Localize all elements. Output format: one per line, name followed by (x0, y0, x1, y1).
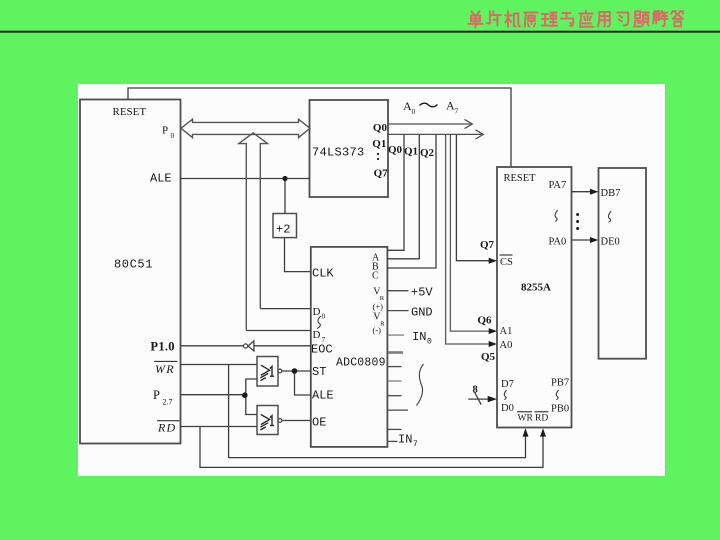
svg-text:Q1: Q1 (372, 138, 386, 150)
svg-text:RESET: RESET (504, 173, 537, 184)
svg-text:ALE: ALE (312, 389, 334, 403)
svg-text:ADC0809: ADC0809 (336, 357, 386, 370)
svg-text:Q5: Q5 (481, 351, 496, 363)
svg-text:IN: IN (412, 330, 426, 344)
svg-text:A1: A1 (500, 326, 513, 337)
svg-text:P: P (153, 388, 160, 402)
svg-text:OE: OE (312, 416, 326, 430)
svg-text:D7: D7 (501, 379, 514, 390)
svg-text:PB0: PB0 (551, 404, 569, 415)
svg-text:+2: +2 (276, 223, 290, 237)
svg-text:0: 0 (427, 338, 432, 347)
svg-text:ST: ST (312, 365, 326, 379)
svg-text:Q2: Q2 (420, 147, 435, 159)
svg-text:7: 7 (455, 107, 459, 116)
svg-text:RD: RD (157, 420, 176, 434)
svg-text:DB7: DB7 (601, 188, 621, 199)
svg-text:CLK: CLK (312, 267, 334, 281)
svg-text:RD: RD (535, 413, 548, 423)
svg-text:R: R (380, 321, 385, 328)
svg-text:DE0: DE0 (601, 237, 620, 248)
svg-text:Q7: Q7 (480, 239, 495, 251)
svg-text:Q1: Q1 (404, 146, 418, 158)
svg-text:8255A: 8255A (521, 282, 551, 294)
svg-text:CS: CS (500, 257, 513, 268)
svg-text:D: D (313, 329, 321, 341)
svg-text:(+): (+) (373, 302, 384, 312)
svg-text:D0: D0 (501, 403, 514, 414)
svg-text:+5V: +5V (411, 286, 433, 300)
svg-text:Q0: Q0 (373, 122, 388, 134)
svg-text:EOC: EOC (311, 343, 333, 357)
svg-text:WR: WR (518, 413, 534, 423)
svg-text:80C51: 80C51 (114, 258, 153, 272)
svg-text:8: 8 (473, 385, 478, 396)
svg-text:7: 7 (413, 440, 418, 449)
svg-text:2.7: 2.7 (163, 398, 173, 407)
svg-text:74LS373: 74LS373 (312, 146, 365, 160)
svg-text:PA7: PA7 (549, 180, 567, 191)
svg-text:D: D (313, 306, 321, 318)
svg-text:PB7: PB7 (551, 378, 569, 389)
svg-text:RESET: RESET (113, 106, 147, 118)
svg-text:0: 0 (171, 131, 175, 140)
svg-text:ALE: ALE (150, 172, 172, 186)
svg-text:Q7: Q7 (374, 167, 389, 179)
svg-text:0: 0 (412, 107, 416, 116)
svg-text:C: C (372, 271, 379, 282)
svg-text:IN: IN (398, 433, 412, 447)
svg-text:A0: A0 (500, 340, 513, 351)
svg-text:0: 0 (322, 312, 326, 321)
svg-text:(-): (-) (373, 325, 382, 335)
svg-text:P: P (162, 125, 168, 137)
svg-text:PA0: PA0 (549, 237, 567, 248)
svg-text:GND: GND (411, 306, 433, 320)
svg-text:WR: WR (155, 362, 175, 376)
svg-text:Q6: Q6 (478, 315, 493, 327)
svg-text:P1.0: P1.0 (150, 340, 174, 354)
svg-text:Q0: Q0 (388, 144, 403, 156)
